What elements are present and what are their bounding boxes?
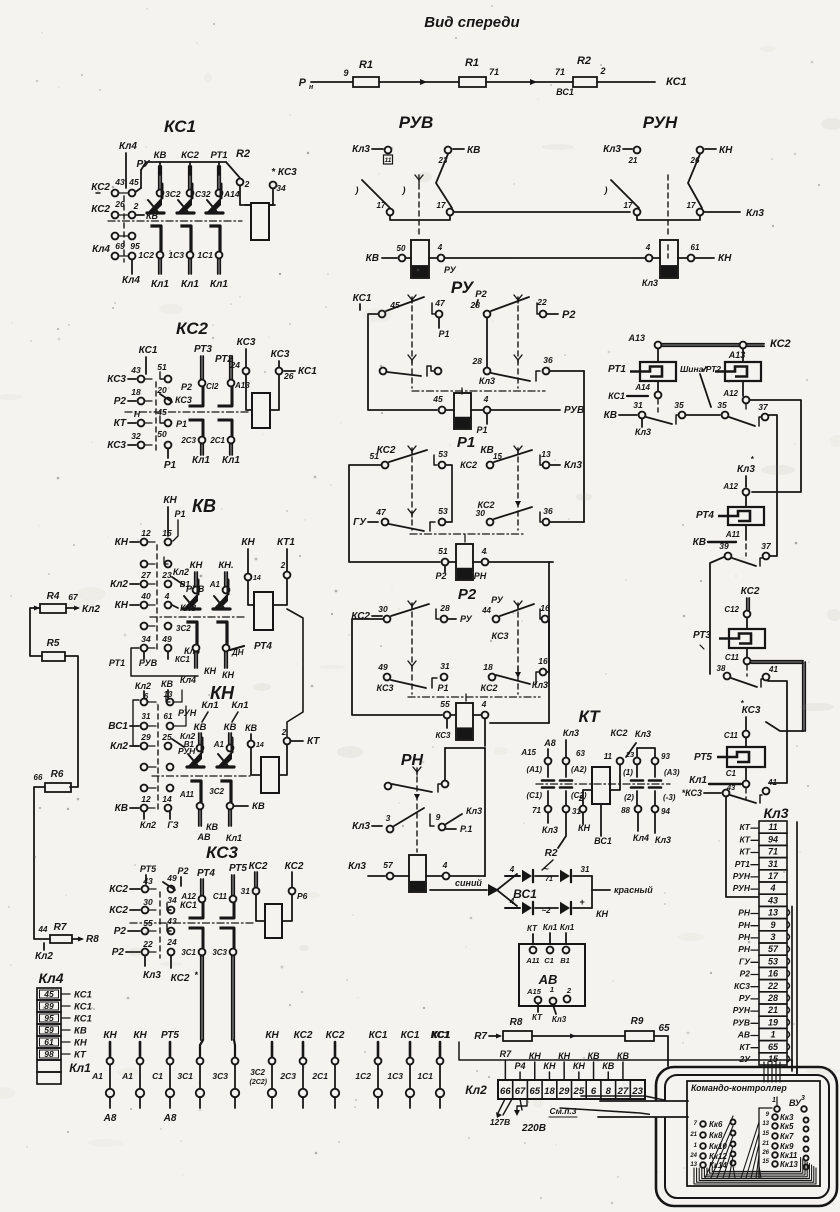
controller contact Кк5 bbox=[772, 1123, 778, 1129]
svg-text:Кл3: Кл3 bbox=[642, 278, 658, 288]
wire R8-R9 bbox=[532, 1035, 625, 1037]
svg-text:Сl2: Сl2 bbox=[206, 382, 219, 391]
svg-text:КС3: КС3 bbox=[734, 981, 750, 991]
svg-text:Кл1: Кл1 bbox=[69, 1061, 91, 1075]
svg-text:44: 44 bbox=[38, 925, 48, 934]
РТ1 wires bbox=[657, 349, 659, 362]
svg-text:4: 4 bbox=[769, 883, 775, 893]
КТ col3-col4 arch bbox=[637, 748, 655, 757]
svg-text:17: 17 bbox=[377, 201, 386, 210]
svg-text:50: 50 bbox=[157, 429, 167, 439]
svg-text:3: 3 bbox=[770, 932, 775, 942]
svg-text:2: 2 bbox=[133, 201, 139, 211]
svg-text:КВ: КВ bbox=[366, 253, 379, 264]
svg-text:31: 31 bbox=[633, 400, 643, 410]
svg-text:24: 24 bbox=[689, 1153, 697, 1159]
svg-text:Кл3: Кл3 bbox=[143, 970, 161, 981]
КВ dash-dot bbox=[150, 616, 245, 618]
svg-text:1С2: 1С2 bbox=[355, 1071, 371, 1081]
svg-text:КН: КН bbox=[718, 253, 732, 264]
Кл3 row 2У 15 bbox=[759, 1053, 787, 1065]
svg-text:31: 31 bbox=[241, 886, 251, 896]
КС3 col drop bend 2 bbox=[234, 1040, 235, 1057]
contact row 39-37 bbox=[725, 553, 732, 560]
controller contact Кк9 bbox=[772, 1143, 778, 1149]
contactor KC3 coil bbox=[265, 904, 282, 938]
РУ dashed 2 bbox=[517, 297, 519, 388]
resistor R2 bbox=[573, 77, 597, 87]
svg-text:КТ: КТ bbox=[527, 924, 538, 933]
svg-text:16: 16 bbox=[538, 656, 548, 666]
svg-text:21: 21 bbox=[689, 1132, 697, 1138]
svg-text:Р1: Р1 bbox=[437, 683, 448, 693]
resistor R5 bbox=[42, 652, 65, 661]
svg-text:КС1: КС1 bbox=[432, 1030, 451, 1041]
svg-text:59: 59 bbox=[44, 1025, 54, 1035]
svg-text:45: 45 bbox=[432, 394, 443, 404]
svg-text:КТ: КТ bbox=[739, 834, 750, 844]
svg-text:R7: R7 bbox=[54, 922, 67, 933]
svg-text:R8: R8 bbox=[510, 1017, 523, 1028]
svg-text:ВС1: ВС1 bbox=[108, 721, 128, 732]
svg-text:24: 24 bbox=[166, 937, 177, 947]
svg-text:(А2): (А2) bbox=[571, 765, 587, 774]
svg-text:А15: А15 bbox=[520, 748, 536, 757]
wire KB area to KC3 drop bbox=[130, 676, 132, 746]
top bus А13-КС2 bbox=[662, 344, 764, 346]
svg-text:23: 23 bbox=[161, 570, 172, 580]
svg-text:Кл3: Кл3 bbox=[564, 460, 582, 471]
КН main lower 1 bbox=[192, 781, 201, 801]
svg-text:КС3: КС3 bbox=[435, 731, 451, 740]
svg-text:КС1: КС1 bbox=[353, 293, 372, 304]
svg-text:(-3): (-3) bbox=[663, 793, 676, 802]
wire R6-R7 bbox=[34, 787, 50, 939]
svg-text:71: 71 bbox=[555, 67, 565, 77]
svg-text:2С1: 2С1 bbox=[209, 436, 225, 445]
РУН right blade bbox=[688, 154, 702, 208]
svg-text:): ) bbox=[355, 185, 359, 195]
svg-text:R1: R1 bbox=[465, 57, 479, 69]
РУН coil right bbox=[688, 255, 695, 262]
svg-text:43: 43 bbox=[166, 916, 177, 926]
svg-text:*: * bbox=[194, 970, 198, 980]
svg-text:34: 34 bbox=[276, 183, 286, 193]
Р1 dash-dot bbox=[410, 533, 525, 535]
svg-text:РТ5: РТ5 bbox=[229, 863, 247, 874]
svg-text:КТ: КТ bbox=[578, 707, 601, 726]
svg-text:КН: КН bbox=[190, 560, 204, 571]
svg-text:23: 23 bbox=[625, 750, 635, 759]
svg-text:3С2: 3С2 bbox=[165, 189, 181, 199]
svg-text:4: 4 bbox=[481, 546, 487, 556]
svg-text:КС3: КС3 bbox=[492, 631, 509, 641]
svg-text:220В: 220В bbox=[521, 1123, 546, 1134]
svg-text:А1: А1 bbox=[209, 580, 221, 589]
svg-text:37: 37 bbox=[761, 541, 772, 551]
svg-text:КН: КН bbox=[596, 909, 609, 919]
KC2 terminal 24 bbox=[243, 368, 250, 375]
controller content box bbox=[687, 1081, 820, 1186]
Кл3 row 43 bbox=[759, 894, 787, 906]
ВС1 right vertex bbox=[591, 876, 593, 908]
svg-text:36: 36 bbox=[543, 355, 553, 365]
svg-text:КС1: КС1 bbox=[74, 990, 92, 1001]
svg-text:22: 22 bbox=[767, 981, 778, 991]
svg-text:3С1: 3С1 bbox=[177, 1071, 193, 1081]
svg-text:РН: РН bbox=[401, 752, 424, 769]
svg-text:Н: Н bbox=[134, 409, 141, 419]
svg-text:Кл1: Кл1 bbox=[210, 279, 228, 290]
svg-text:КН: КН bbox=[558, 1051, 571, 1061]
svg-text:КН.: КН. bbox=[218, 560, 233, 571]
svg-text:R7: R7 bbox=[500, 1049, 512, 1059]
svg-text:РТ4: РТ4 bbox=[696, 510, 714, 521]
Кл3 row РН 57 bbox=[759, 943, 787, 955]
svg-text:28: 28 bbox=[472, 356, 483, 366]
relay РУ coil bbox=[454, 393, 471, 429]
svg-text:В1: В1 bbox=[184, 740, 195, 749]
dash-dot KC2 bbox=[125, 411, 250, 413]
svg-text:9: 9 bbox=[770, 920, 775, 930]
svg-text:Кл3: Кл3 bbox=[737, 464, 755, 475]
Кл4 row 95 КС1 bbox=[37, 1012, 61, 1024]
svg-text:51: 51 bbox=[157, 362, 167, 372]
svg-text:С11: С11 bbox=[724, 731, 739, 740]
svg-text:Р2: Р2 bbox=[177, 866, 188, 876]
svg-text:61: 61 bbox=[164, 712, 173, 721]
controller frame gap bbox=[650, 1101, 668, 1117]
svg-text:КС3: КС3 bbox=[237, 337, 256, 348]
svg-text:Кл3: Кл3 bbox=[542, 825, 558, 835]
svg-text:43: 43 bbox=[114, 177, 125, 187]
РН row1 bbox=[385, 783, 392, 790]
KC2 col2 bbox=[230, 356, 232, 380]
КТ dash-dot bbox=[536, 783, 670, 785]
controller contact Кк7 bbox=[772, 1133, 778, 1139]
КН left bracket wire bbox=[133, 700, 139, 746]
svg-text:1С1: 1С1 bbox=[417, 1071, 433, 1081]
svg-text:4: 4 bbox=[509, 865, 515, 874]
Кл3 row АВ 1 bbox=[759, 1028, 787, 1040]
svg-text:13: 13 bbox=[690, 1162, 697, 1168]
Р1 dashed 2 bbox=[517, 448, 519, 530]
contactor КВ coil bbox=[254, 592, 273, 630]
svg-text:Кк13: Кк13 bbox=[780, 1160, 798, 1169]
svg-text:РУВ: РУВ bbox=[399, 113, 433, 132]
svg-text:53: 53 bbox=[768, 956, 778, 966]
svg-text:Кл3: Кл3 bbox=[532, 680, 548, 690]
РУ row2 right bbox=[484, 368, 491, 375]
Кл4 row 59 КВ bbox=[37, 1024, 61, 1036]
svg-text:66: 66 bbox=[34, 773, 43, 782]
Кл4 row 61 КН bbox=[37, 1036, 61, 1048]
svg-text:94: 94 bbox=[661, 807, 670, 816]
svg-text:(А3): (А3) bbox=[664, 768, 680, 777]
svg-text:В1: В1 bbox=[560, 956, 570, 965]
svg-text:98: 98 bbox=[44, 1049, 54, 1059]
svg-text:РТ1: РТ1 bbox=[109, 658, 125, 668]
resistor R4 bbox=[40, 604, 66, 613]
contactor KC2 coil bbox=[252, 393, 270, 428]
wire bbox=[125, 153, 127, 188]
svg-text:Кл4: Кл4 bbox=[180, 675, 196, 685]
svg-text:11: 11 bbox=[604, 752, 613, 761]
РТ5 lower bbox=[745, 767, 747, 780]
КН aux row plain2 bbox=[141, 785, 148, 792]
svg-text:КВ: КВ bbox=[602, 1061, 615, 1071]
svg-text:22: 22 bbox=[536, 297, 547, 307]
svg-text:КС1: КС1 bbox=[74, 1002, 92, 1013]
svg-text:36: 36 bbox=[543, 506, 553, 516]
wire KC1 top bus bbox=[141, 162, 226, 170]
svg-text:ВС1: ВС1 bbox=[513, 887, 537, 901]
svg-text:9: 9 bbox=[436, 812, 441, 822]
svg-text:РУВ: РУВ bbox=[733, 1017, 750, 1027]
svg-text:61: 61 bbox=[691, 243, 700, 252]
svg-text:14: 14 bbox=[253, 575, 261, 582]
Р2 left wire bbox=[352, 619, 442, 715]
РУ row2 left bbox=[380, 368, 387, 375]
KC2 col1 lower bbox=[190, 420, 203, 436]
svg-text:КС1: КС1 bbox=[74, 1014, 92, 1025]
thermal РТ4 bbox=[718, 507, 764, 525]
Кл3 row РУН 4 bbox=[759, 882, 787, 894]
KC1 main contact 1 bbox=[159, 166, 161, 190]
svg-text:Р2: Р2 bbox=[740, 969, 751, 979]
wire 39 down bbox=[710, 557, 724, 674]
svg-text:Кл4: Кл4 bbox=[38, 970, 63, 986]
svg-text:КС2: КС2 bbox=[176, 319, 209, 338]
svg-text:53: 53 bbox=[438, 449, 448, 459]
svg-text:R1: R1 bbox=[359, 59, 373, 71]
svg-text:(1): (1) bbox=[623, 768, 633, 777]
svg-text:РТ1: РТ1 bbox=[210, 150, 227, 161]
svg-text:2: 2 bbox=[578, 794, 584, 803]
svg-text:Кл3: Кл3 bbox=[635, 427, 651, 437]
svg-text:67: 67 bbox=[515, 1086, 526, 1097]
svg-text:Кл3: Кл3 bbox=[352, 144, 370, 155]
thermal РТ5 bbox=[717, 747, 765, 767]
svg-text:127В: 127В bbox=[490, 1117, 510, 1127]
svg-text:31: 31 bbox=[440, 661, 450, 671]
svg-text:КВ: КВ bbox=[154, 150, 167, 161]
svg-text:49: 49 bbox=[166, 873, 177, 883]
Р2 dashed 1 bbox=[411, 603, 413, 694]
svg-text:43: 43 bbox=[726, 783, 736, 792]
svg-text:КС2: КС2 bbox=[171, 973, 190, 984]
svg-text:25: 25 bbox=[161, 732, 172, 742]
svg-text:КС2: КС2 bbox=[249, 861, 268, 872]
wire R9 down bbox=[654, 1036, 668, 1066]
svg-text:А11: А11 bbox=[725, 530, 741, 539]
КВ right wires bbox=[247, 549, 249, 573]
Р2 coil terms bbox=[444, 712, 451, 719]
РН dashed bbox=[416, 768, 418, 852]
Кл3 row КС3 22 bbox=[759, 980, 787, 992]
svg-text:Кл2: Кл2 bbox=[110, 579, 128, 590]
svg-text:А11: А11 bbox=[179, 790, 195, 799]
svg-text:РТ4: РТ4 bbox=[197, 868, 215, 879]
svg-text:13: 13 bbox=[762, 1121, 769, 1127]
svg-text:КС1: КС1 bbox=[164, 117, 196, 136]
КН dash-dot bbox=[152, 775, 250, 777]
svg-text:Кк5: Кк5 bbox=[780, 1122, 794, 1131]
svg-text:1: 1 bbox=[550, 985, 554, 994]
КТ coil bbox=[592, 767, 610, 804]
svg-text:30: 30 bbox=[143, 897, 153, 907]
svg-text:А15: А15 bbox=[526, 987, 542, 996]
wire R5-R6 bbox=[65, 656, 78, 787]
svg-text:ВС1: ВС1 bbox=[556, 87, 574, 97]
svg-text:Р1: Р1 bbox=[476, 425, 487, 435]
svg-text:КТ: КТ bbox=[307, 736, 320, 747]
svg-text:3С2: 3С2 bbox=[250, 1068, 265, 1077]
svg-text:КТ: КТ bbox=[739, 847, 750, 857]
svg-text:55: 55 bbox=[440, 699, 450, 709]
Кл2 table bbox=[498, 1080, 645, 1099]
svg-text:Кл1: Кл1 bbox=[543, 923, 558, 932]
svg-text:1С3: 1С3 bbox=[387, 1071, 403, 1081]
svg-text:R8: R8 bbox=[86, 934, 99, 945]
svg-text:Р1: Р1 bbox=[438, 329, 449, 339]
svg-text:КС3: КС3 bbox=[107, 440, 126, 451]
svg-text:45: 45 bbox=[43, 989, 54, 999]
svg-text:Р2: Р2 bbox=[562, 309, 575, 321]
svg-text:65: 65 bbox=[658, 1023, 670, 1034]
svg-text:): ) bbox=[604, 185, 608, 195]
svg-text:2: 2 bbox=[281, 728, 287, 737]
КВ dashed aux bbox=[156, 545, 158, 652]
С11 right loop bbox=[751, 661, 803, 663]
relay РН coil bbox=[409, 855, 426, 892]
svg-text:Кл1: Кл1 bbox=[222, 455, 240, 466]
svg-text:3С2: 3С2 bbox=[176, 624, 191, 633]
svg-text:Кл1: Кл1 bbox=[226, 833, 242, 843]
svg-text:63: 63 bbox=[576, 749, 585, 758]
Р2 right wires bbox=[547, 671, 549, 673]
svg-text:Кл3: Кл3 bbox=[352, 821, 370, 832]
svg-text:24: 24 bbox=[230, 360, 241, 370]
svg-text:КС2: КС2 bbox=[91, 182, 110, 193]
svg-text:1: 1 bbox=[772, 1097, 776, 1104]
Кл3 row КТ 71 bbox=[759, 845, 787, 857]
svg-text:КТ: КТ bbox=[114, 418, 127, 429]
svg-text:95: 95 bbox=[44, 1013, 54, 1023]
relay Р1 coil bbox=[456, 544, 473, 580]
svg-text:КВ: КВ bbox=[617, 1051, 630, 1061]
contactor KC1 coil bbox=[251, 203, 269, 240]
РУ dash-dot bottom bbox=[412, 390, 545, 392]
svg-text:КТ1: КТ1 bbox=[277, 537, 295, 548]
thermal РТ3 bbox=[719, 629, 765, 648]
svg-text:Кл2: Кл2 bbox=[135, 681, 151, 691]
controller contact Кк10 bbox=[700, 1143, 706, 1149]
svg-text:КС2: КС2 bbox=[481, 683, 498, 693]
svg-text:R2: R2 bbox=[236, 148, 250, 160]
thermal РТ1 bbox=[630, 362, 676, 381]
Кл3 row КТ 65 bbox=[759, 1041, 787, 1053]
svg-text:49: 49 bbox=[161, 634, 172, 644]
wire 43 to Кл3 box bbox=[726, 797, 758, 897]
svg-text:КН: КН bbox=[543, 1061, 556, 1071]
Кл3 row КТ 11 bbox=[759, 821, 787, 833]
svg-text:Кл1: Кл1 bbox=[181, 279, 199, 290]
wire top chain bbox=[311, 81, 353, 83]
svg-text:РУН: РУН bbox=[178, 708, 197, 718]
svg-text:18: 18 bbox=[483, 662, 493, 672]
svg-text:С1: С1 bbox=[726, 769, 737, 778]
svg-text:А11: А11 bbox=[525, 956, 539, 965]
svg-text:В1: В1 bbox=[180, 580, 191, 589]
svg-text:15: 15 bbox=[762, 1159, 769, 1165]
svg-text:53: 53 bbox=[438, 506, 448, 516]
Кл3 row КТ 94 bbox=[759, 833, 787, 845]
dash-dot line KC1 bbox=[108, 220, 242, 222]
svg-text:35: 35 bbox=[674, 400, 684, 410]
КВ aux row plain2 bbox=[141, 623, 148, 630]
svg-text:КН: КН bbox=[133, 1030, 147, 1041]
КВ main lower 1 bbox=[188, 622, 197, 644]
svg-text:АВ: АВ bbox=[737, 1030, 750, 1040]
controller contact Кк11 bbox=[772, 1152, 778, 1158]
svg-text:Кл4: Кл4 bbox=[119, 141, 137, 152]
svg-text:43: 43 bbox=[142, 876, 153, 886]
svg-text:КС1: КС1 bbox=[666, 76, 687, 88]
relay РУН coil bbox=[660, 240, 678, 278]
svg-text:~: ~ bbox=[543, 864, 549, 874]
wire Р2-4 vertical bbox=[484, 748, 486, 876]
svg-text:РУН: РУН bbox=[733, 1005, 751, 1015]
svg-text:РУН: РУН bbox=[733, 883, 751, 893]
svg-text:43: 43 bbox=[130, 365, 141, 375]
svg-text:2: 2 bbox=[244, 179, 250, 189]
svg-text:39: 39 bbox=[719, 541, 729, 551]
svg-text:31: 31 bbox=[768, 859, 778, 869]
КН aux row a bbox=[141, 699, 148, 706]
svg-text:Кл1: Кл1 bbox=[151, 279, 169, 290]
svg-text:КС1: КС1 bbox=[608, 391, 625, 401]
Кл3 row РТ1 31 bbox=[759, 858, 787, 870]
dash-dot KC3 bbox=[130, 922, 255, 924]
svg-text:КВ: КВ bbox=[252, 801, 265, 812]
РТ2 lower terminal bbox=[743, 397, 750, 404]
svg-text:3С3: 3С3 bbox=[212, 1071, 228, 1081]
Кл3 row РН 13 bbox=[759, 906, 787, 918]
dashed KC2 aux bbox=[155, 382, 157, 452]
svg-text:А8: А8 bbox=[103, 1113, 117, 1124]
bottom contact 3С1 bbox=[197, 1058, 204, 1065]
РУ coil terms bbox=[439, 407, 446, 414]
РТ2 wires bbox=[742, 349, 744, 362]
controller contact Кк8 bbox=[700, 1132, 706, 1138]
svg-text:РТ5: РТ5 bbox=[694, 752, 712, 763]
svg-text:КВ: КВ bbox=[245, 723, 258, 733]
svg-text:Кк7: Кк7 bbox=[780, 1132, 794, 1141]
svg-text:РН: РН bbox=[738, 944, 751, 954]
svg-text:КС2: КС2 bbox=[741, 586, 760, 597]
svg-text:30: 30 bbox=[476, 508, 486, 518]
svg-text:КС2: КС2 bbox=[294, 1030, 313, 1041]
svg-text:9: 9 bbox=[343, 68, 348, 78]
svg-text:47: 47 bbox=[434, 298, 446, 308]
svg-text:4: 4 bbox=[645, 243, 651, 252]
svg-text:КС1: КС1 bbox=[175, 655, 191, 664]
Кл3 row РН 9 bbox=[759, 919, 787, 931]
Р1 left wire bbox=[349, 465, 440, 562]
svg-text:КВ: КВ bbox=[74, 1026, 87, 1037]
svg-text:15: 15 bbox=[162, 528, 172, 538]
